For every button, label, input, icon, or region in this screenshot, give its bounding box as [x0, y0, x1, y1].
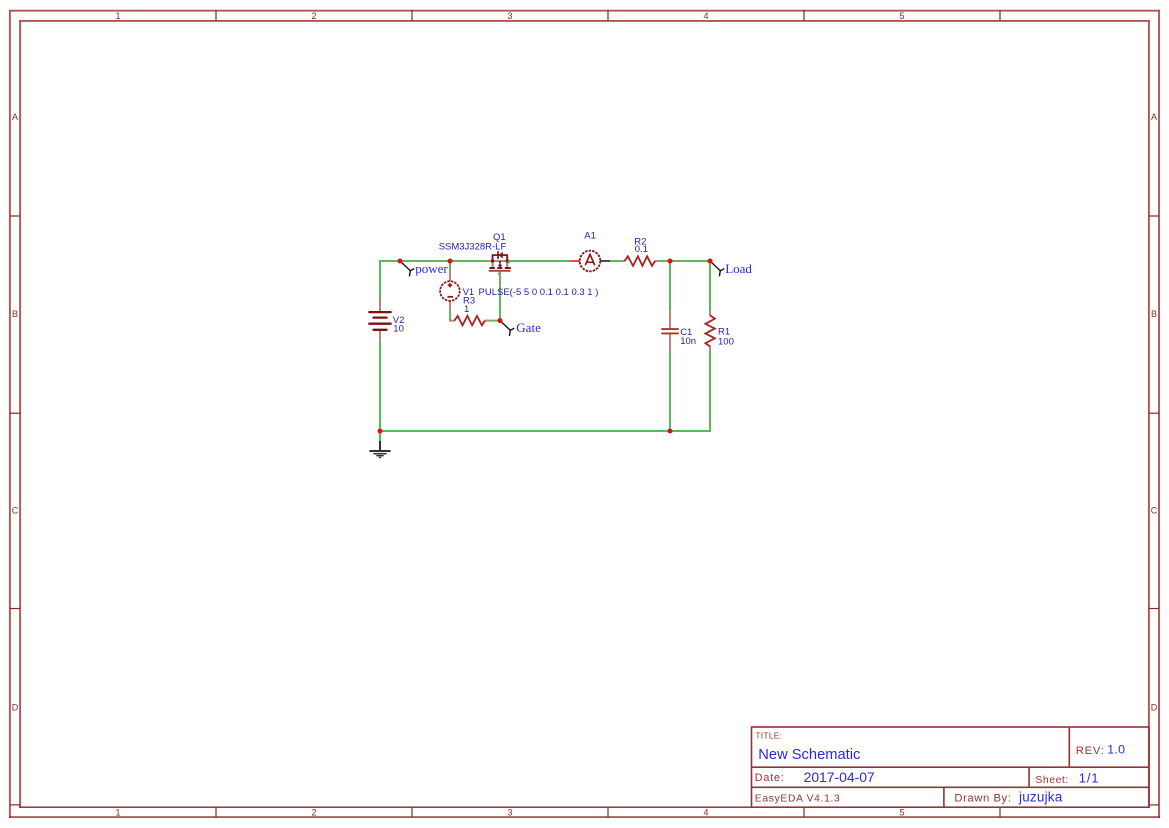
wire ground stub [379, 431, 381, 441]
wire left vertical upper [379, 260, 381, 302]
border frame outer horizontals [9, 10, 1160, 12]
svg-text:4: 4 [703, 808, 708, 818]
wire V1-to-R3 elbow [450, 311, 452, 321]
frame numbers top [115, 11, 904, 21]
ammeter letter [586, 254, 595, 264]
wire right vertical lower [709, 351, 711, 432]
svg-text:juzujka: juzujka [1018, 790, 1063, 805]
C1 bottom lead [669, 334, 671, 351]
frame ticks top [216, 10, 1000, 21]
mosfet channel bar left [489, 267, 494, 269]
svg-text:1.0: 1.0 [1107, 743, 1125, 757]
mosfet drain stub lower [506, 261, 508, 267]
svg-text:100: 100 [718, 336, 734, 347]
frame numbers bottom [115, 808, 904, 818]
svg-text:Load: Load [725, 261, 752, 276]
svg-text:B: B [1151, 309, 1157, 319]
svg-text:power: power [415, 261, 448, 276]
wire R3-to-gate-node [490, 320, 500, 322]
mosfet gate lead [499, 272, 501, 282]
svg-text:1: 1 [115, 11, 120, 21]
mosfet body arrow stub upper [499, 261, 501, 263]
ammeter + lead [570, 260, 580, 262]
svg-text:5: 5 [899, 808, 904, 818]
svg-text:1/1: 1/1 [1079, 771, 1099, 786]
svg-text:1: 1 [464, 304, 469, 315]
node power [398, 259, 403, 264]
wire C1 upper [669, 261, 671, 311]
mosfet pin dots [491, 259, 494, 262]
wire mosfet-to-ammeter [509, 260, 570, 262]
svg-text:2: 2 [311, 808, 316, 818]
R3 left lead [450, 320, 455, 322]
svg-text:C: C [1151, 506, 1158, 516]
frame ticks left [10, 216, 20, 805]
frame letters right [1151, 112, 1158, 713]
border frame bottom horizontals [9, 807, 1160, 817]
svg-text:PULSE(-5 5 0 0.1 0.1 0.3 1 ): PULSE(-5 5 0 0.1 0.1 0.3 1 ) [479, 287, 599, 298]
mosfet body diode bar [497, 251, 499, 259]
mosfet drain stub above [506, 256, 508, 261]
svg-text:3: 3 [507, 808, 512, 818]
wire gate vertical [499, 281, 501, 321]
mosfet source stub lower [492, 261, 494, 267]
svg-text:A: A [1151, 112, 1157, 122]
R1 top lead [709, 311, 711, 316]
mosfet gate plate [489, 270, 511, 272]
svg-text:1: 1 [115, 808, 120, 818]
svg-text:Drawn By:: Drawn By: [954, 792, 1011, 804]
mosfet body diode triangle [499, 252, 503, 259]
wire R2-to-load [660, 260, 711, 262]
mosfet source stub above [492, 256, 494, 261]
C1 top lead [669, 311, 671, 329]
R3 right lead [485, 320, 491, 322]
svg-text:C: C [12, 506, 19, 516]
node C1 bottom [668, 429, 673, 434]
svg-text:Gate: Gate [516, 320, 541, 335]
mosfet channel bar right [505, 267, 511, 269]
svg-text:New Schematic: New Schematic [758, 747, 860, 763]
svg-text:D: D [12, 703, 19, 713]
node C1 top [668, 259, 673, 264]
svg-text:D: D [1151, 703, 1158, 713]
svg-text:2017-04-07: 2017-04-07 [804, 769, 875, 785]
svg-text:Date:: Date: [755, 772, 785, 784]
svg-text:2: 2 [311, 11, 316, 21]
mosfet top bar [493, 255, 508, 261]
svg-text:0.1: 0.1 [635, 244, 648, 255]
wire bottom [379, 430, 711, 432]
R1 bottom lead [709, 346, 711, 351]
mosfet gate green mark [498, 273, 500, 275]
node Gate [498, 318, 503, 323]
mosfet source stub below [492, 261, 494, 268]
svg-text:B: B [12, 309, 18, 319]
ammeter circle [580, 251, 601, 272]
mosfet drain stub below [506, 261, 508, 268]
wire top left segment [379, 260, 489, 262]
mosfet right pin green mark [508, 261, 510, 263]
node Load [708, 259, 713, 264]
ammeter - lead [600, 260, 610, 262]
mosfet horizontal lead [489, 260, 510, 262]
svg-text:A1: A1 [584, 231, 596, 242]
svg-text:SSM3J328R-LF: SSM3J328R-LF [439, 242, 507, 253]
battery V2 bottom lead [379, 331, 381, 341]
R2 left lead [620, 260, 625, 262]
mosfet body arrow stub [499, 266, 501, 268]
wire C1 lower [669, 352, 671, 432]
frame letters left [12, 112, 19, 713]
svg-text:10: 10 [393, 324, 404, 335]
wire left vertical lower [379, 341, 381, 432]
mosfet channel bar middle [497, 267, 502, 269]
battery V2 top lead [379, 302, 381, 312]
svg-text:4: 4 [703, 11, 708, 21]
wire V1 top [449, 261, 451, 271]
R2 right lead [655, 260, 660, 262]
svg-text:EasyEDA V4.1.3: EasyEDA V4.1.3 [755, 793, 841, 804]
svg-text:3: 3 [507, 11, 512, 21]
frame ticks right [1149, 216, 1159, 805]
mosfet body arrow [498, 263, 502, 266]
V1 top lead [449, 271, 451, 282]
node ground [378, 429, 383, 434]
svg-text:TITLE:: TITLE: [755, 731, 782, 741]
svg-text:A: A [12, 112, 18, 122]
frame ticks bottom [216, 807, 1000, 817]
svg-text:Sheet:: Sheet: [1035, 774, 1068, 786]
svg-text:10n: 10n [680, 336, 696, 347]
node V1 top [448, 259, 453, 264]
wire right vertical upper [709, 260, 711, 311]
wire ammeter-to-R2 [610, 260, 620, 262]
svg-text:REV:: REV: [1076, 745, 1105, 757]
V1 bottom lead [449, 301, 451, 312]
svg-text:5: 5 [899, 11, 904, 21]
